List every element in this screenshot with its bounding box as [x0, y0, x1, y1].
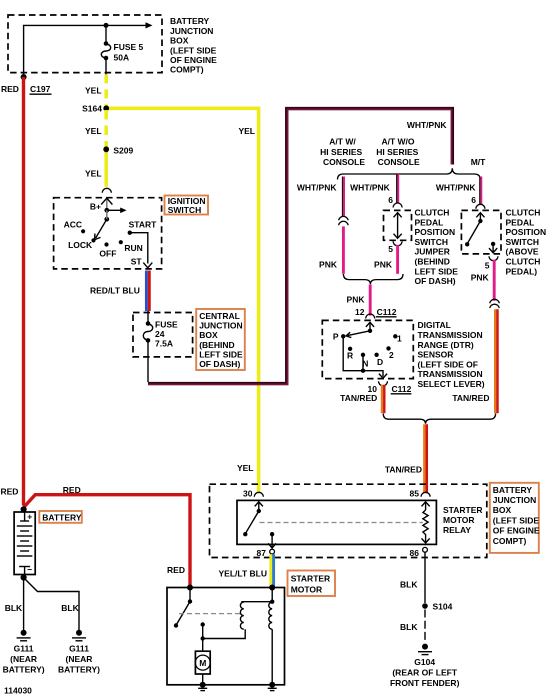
node: yel/lt blu entry	[269, 585, 275, 591]
solenoid actuation dashed link	[179, 613, 243, 615]
svg-text:D: D	[377, 357, 383, 367]
node: battery positive terminal	[21, 506, 27, 512]
svg-text:PNK: PNK	[319, 260, 338, 270]
svg-text:WHT/PNK: WHT/PNK	[297, 183, 338, 193]
jumper link with arrows	[394, 213, 402, 239]
brace: PNK variants merge	[343, 274, 403, 284]
svg-text:S164: S164	[82, 104, 102, 114]
svg-text:RELAY: RELAY	[443, 525, 471, 535]
console label A/T W/O HI SERIES CONSOLE	[376, 137, 420, 167]
arrow into B+	[101, 198, 112, 210]
wire WHT/PNK trunk (fuse 24 out, up and across top right)	[148, 109, 452, 385]
node: battery negative terminal	[21, 574, 27, 580]
wire YEL dashed (S164 to S209)	[104, 110, 108, 148]
node: red entry	[187, 585, 193, 591]
svg-text:CLUTCH: CLUTCH	[506, 208, 541, 218]
wire BLK (battery to G111 left)	[23, 578, 25, 631]
svg-text:−: −	[27, 565, 32, 575]
svg-text:SWITCH: SWITCH	[506, 237, 540, 247]
ignition position START contact	[128, 220, 158, 235]
wire PNK (left branch)	[342, 226, 345, 273]
fuse F5 (FUSE 5 50A)	[101, 25, 143, 74]
brace: TAN/RED variants merge	[383, 414, 495, 424]
connector C112 label (top)	[376, 307, 397, 317]
svg-text:OF ENGINE: OF ENGINE	[170, 55, 217, 65]
svg-text:START: START	[129, 220, 158, 230]
svg-text:FUSE 5: FUSE 5	[114, 42, 144, 52]
svg-text:JUNCTION: JUNCTION	[493, 495, 536, 505]
svg-text:CLUTCH: CLUTCH	[415, 208, 450, 218]
connector arc at DTR entry	[366, 314, 375, 319]
connector cup at DTR exit	[379, 381, 388, 386]
svg-text:RED: RED	[1, 84, 19, 94]
node: lever pivot	[104, 217, 109, 222]
svg-text:COMPT): COMPT)	[493, 536, 527, 546]
clutch pedal position switch (dashed box)	[461, 210, 501, 254]
svg-text:SWITCH: SWITCH	[168, 205, 202, 215]
battery label (orange box)	[39, 511, 82, 523]
wire WHT/PNK (A/T w/o console branch)	[397, 174, 399, 203]
inline connector (left branch)	[339, 216, 349, 225]
svg-text:5: 5	[485, 260, 490, 270]
wire RED/LT BLU (ignition to fuse 24)	[146, 271, 149, 312]
svg-text:WHT/PNK: WHT/PNK	[350, 183, 391, 193]
wire YEL dashed (fuse 5 to S164)	[104, 74, 108, 108]
svg-text:PEDAL): PEDAL)	[506, 266, 538, 276]
connector cup at jumper exit	[393, 241, 402, 246]
node: RED tap junction	[21, 74, 27, 80]
wire TAN/RED (M/T branch down)	[495, 309, 497, 413]
svg-text:STARTER: STARTER	[443, 505, 483, 515]
svg-text:JUNCTION: JUNCTION	[199, 321, 242, 331]
svg-text:12: 12	[355, 307, 365, 317]
svg-text:P: P	[333, 332, 339, 342]
svg-text:HI SERIES: HI SERIES	[320, 147, 362, 157]
svg-text:G111: G111	[69, 644, 89, 654]
connector arc at ignition B+ entry	[102, 188, 111, 193]
svg-text:SWITCH: SWITCH	[415, 237, 449, 247]
svg-text:(BEHIND: (BEHIND	[199, 340, 234, 350]
svg-text:LEFT SIDE: LEFT SIDE	[415, 266, 459, 276]
svg-text:MOTOR: MOTOR	[443, 515, 474, 525]
connector circle at pin 86	[423, 547, 428, 552]
wire PNK (merged, to DTR)	[369, 285, 372, 316]
svg-text:TRANSMISSION: TRANSMISSION	[418, 330, 483, 340]
svg-text:PEDAL: PEDAL	[506, 217, 535, 227]
wire YEL branch (S164 to starter relay pin 30)	[106, 108, 258, 493]
svg-text:50A: 50A	[114, 53, 130, 63]
svg-text:LOCK: LOCK	[68, 240, 93, 250]
svg-text:TRANSMISSION: TRANSMISSION	[418, 369, 483, 379]
svg-text:TAN/RED: TAN/RED	[340, 393, 377, 403]
svg-text:SENSOR: SENSOR	[418, 350, 454, 360]
svg-text:24: 24	[155, 329, 165, 339]
ground G111 left label text	[3, 644, 45, 675]
svg-text:OF DASH): OF DASH)	[199, 359, 240, 369]
node: bus junction	[104, 23, 109, 28]
ground G111 right label text	[58, 644, 100, 675]
svg-text:BLK: BLK	[5, 603, 23, 613]
svg-text:FRONT FENDER): FRONT FENDER)	[390, 678, 460, 688]
clutch switch internals	[465, 213, 497, 253]
DTR position R	[347, 347, 353, 361]
svg-text:YEL/LT BLU: YEL/LT BLU	[219, 569, 267, 579]
svg-text:85: 85	[410, 488, 420, 498]
wire PNK (M/T branch)	[493, 260, 496, 301]
connector C112 label (bottom)	[391, 384, 412, 394]
DTR position 1	[393, 333, 402, 343]
svg-text:DIGITAL: DIGITAL	[418, 320, 451, 330]
ground G111 (near battery, left)	[17, 630, 31, 641]
svg-text:BLK: BLK	[400, 622, 418, 632]
node B+ junction	[104, 208, 109, 213]
svg-text:SELECT LEVER): SELECT LEVER)	[418, 379, 485, 389]
svg-text:RUN: RUN	[124, 243, 142, 253]
svg-text:PNK: PNK	[347, 294, 366, 304]
ground G111 (near battery, right)	[72, 630, 86, 641]
svg-text:YEL: YEL	[85, 126, 102, 136]
svg-text:TAN/RED: TAN/RED	[452, 393, 489, 403]
battery	[14, 511, 35, 574]
svg-text:BLK: BLK	[400, 580, 418, 590]
DTR position P	[333, 332, 346, 342]
svg-text:YEL: YEL	[85, 86, 102, 96]
svg-text:RED: RED	[167, 565, 185, 575]
svg-text:BOX: BOX	[199, 330, 218, 340]
svg-text:CONSOLE: CONSOLE	[378, 157, 420, 167]
clutch switch label text	[506, 208, 547, 277]
starter motor relay box	[237, 500, 436, 544]
connector cup at clutch switch exit	[489, 256, 498, 261]
svg-text:RANGE (DTR): RANGE (DTR)	[418, 340, 474, 350]
fuse F24 (FUSE 24 7.5A)	[143, 311, 178, 349]
inline connector (M/T branch)	[490, 299, 500, 308]
brace: wiring variants (top)	[338, 168, 481, 179]
splice S209	[103, 146, 133, 156]
svg-text:5: 5	[388, 244, 393, 254]
DTR position D	[374, 353, 383, 367]
starter solenoid switch	[174, 588, 192, 628]
svg-text:PNK: PNK	[374, 260, 393, 270]
relay actuation dashed link	[260, 522, 424, 524]
svg-text:BOX: BOX	[493, 505, 512, 515]
svg-text:86: 86	[410, 548, 420, 558]
starter switch contact to motor	[201, 622, 246, 652]
connector circle at pin 87	[270, 549, 275, 554]
svg-text:PNK: PNK	[471, 273, 490, 283]
svg-text:114030: 114030	[4, 686, 32, 696]
connector arc at jumper entry	[393, 203, 402, 208]
svg-text:(LEFT SIDE: (LEFT SIDE	[493, 515, 540, 525]
ignition switch box (dashed)	[54, 198, 162, 269]
svg-text:ACC: ACC	[64, 220, 82, 230]
svg-text:(REAR OF LEFT: (REAR OF LEFT	[392, 668, 457, 678]
svg-text:CLUTCH: CLUTCH	[506, 257, 541, 267]
svg-text:G104: G104	[414, 657, 435, 667]
svg-text:(ABOVE: (ABOVE	[506, 247, 539, 257]
svg-text:+: +	[27, 511, 32, 521]
connector arc at clutch switch entry	[476, 204, 485, 209]
svg-text:R: R	[347, 351, 353, 361]
svg-text:MOTOR: MOTOR	[291, 585, 322, 595]
ignition position ACC	[64, 220, 86, 234]
svg-text:POSITION: POSITION	[415, 227, 456, 237]
svg-text:BOX: BOX	[170, 36, 189, 46]
wire TAN/RED (merged, to relay pin 85)	[424, 424, 426, 493]
connector arc at pin 85	[421, 492, 430, 496]
case ground tick (motor)	[198, 688, 207, 690]
ignition position RUN	[119, 240, 143, 253]
svg-text:YEL: YEL	[237, 463, 254, 473]
svg-text:OFF: OFF	[99, 249, 116, 259]
svg-text:(LEFT SIDE OF: (LEFT SIDE OF	[418, 359, 478, 369]
svg-text:(NEAR: (NEAR	[10, 654, 37, 664]
case ground tick (winding)	[268, 688, 277, 690]
wire BLK dashed (S104 to G104)	[424, 610, 426, 644]
ignition switch label (orange box)	[165, 196, 209, 216]
BJB1 label text	[170, 16, 217, 74]
svg-text:WHT/PNK: WHT/PNK	[436, 183, 477, 193]
node: motor ground on case	[200, 682, 206, 688]
battery junction box BJB1 (top left, dashed)	[8, 15, 162, 73]
svg-text:M/T: M/T	[471, 157, 486, 167]
ignition position LOCK	[68, 238, 96, 250]
node: winding ground on case	[269, 682, 275, 688]
svg-text:M: M	[199, 658, 206, 668]
CJB label (orange box)	[196, 309, 245, 370]
svg-text:C112: C112	[377, 307, 397, 317]
ignition position OFF	[99, 242, 116, 258]
battery junction box BJB2 (relay, dashed)	[210, 484, 487, 557]
svg-text:6: 6	[388, 195, 393, 205]
starter motor label (orange box)	[288, 571, 336, 597]
DTR output path with arrow	[343, 336, 387, 378]
svg-text:S209: S209	[113, 146, 133, 156]
svg-text:OF DASH): OF DASH)	[415, 276, 456, 286]
wire YEL/LT BLU (pin 87 to starter motor)	[271, 554, 274, 587]
wire YEL (S209 to ignition switch)	[104, 148, 108, 187]
svg-text:(NEAR: (NEAR	[66, 654, 93, 664]
DTR sensor box (dashed)	[322, 320, 413, 378]
svg-text:YEL: YEL	[85, 169, 102, 179]
BJB2 label (orange box)	[490, 483, 540, 553]
svg-text:JUNCTION: JUNCTION	[170, 26, 213, 36]
wire RED (left battery feed, vertical)	[22, 77, 25, 506]
clutch pedal position switch jumper (dashed box)	[384, 210, 412, 240]
DTR position 2	[386, 346, 394, 360]
console label A/T W/ HI SERIES CONSOLE	[320, 137, 365, 167]
ignition switch lever with arrowhead	[95, 219, 107, 239]
svg-text:OF ENGINE: OF ENGINE	[493, 526, 540, 536]
svg-text:A/T W/: A/T W/	[329, 137, 356, 147]
connector C197 label	[30, 84, 52, 94]
wire WHT/PNK (M/T branch)	[480, 177, 482, 205]
starter motor box	[167, 588, 285, 685]
svg-text:BATTERY: BATTERY	[42, 512, 82, 522]
DTR label text	[418, 320, 485, 389]
connector arc at pin 30	[254, 492, 263, 496]
DTR internals: entry arrow and selector lever	[346, 322, 374, 337]
svg-text:C197: C197	[30, 84, 51, 94]
wire: BJB1 internal bus with arrow	[24, 22, 153, 77]
svg-text:JUMPER: JUMPER	[415, 247, 450, 257]
svg-text:A/T W/O: A/T W/O	[381, 137, 414, 147]
svg-text:CENTRAL: CENTRAL	[199, 311, 240, 321]
svg-text:2: 2	[389, 350, 394, 360]
relay switch (pin 30 to 87)	[243, 502, 276, 548]
jumper label text	[415, 208, 459, 287]
svg-text:BATTERY): BATTERY)	[58, 665, 100, 675]
wire TAN/RED (DTR out)	[382, 385, 384, 413]
splice S104	[422, 602, 452, 612]
svg-text:G111: G111	[14, 644, 34, 654]
svg-text:TAN/RED: TAN/RED	[385, 465, 422, 475]
ground G104 label text	[390, 657, 460, 688]
svg-text:30: 30	[243, 488, 253, 498]
wire: START output with arrow	[130, 233, 153, 268]
svg-text:STARTER: STARTER	[291, 574, 331, 584]
svg-text:FUSE: FUSE	[155, 320, 178, 330]
ground G104	[418, 644, 432, 655]
label STARTER MOTOR RELAY	[443, 505, 483, 535]
svg-text:(LEFT SIDE: (LEFT SIDE	[170, 45, 217, 55]
wire RED (battery to starter motor)	[24, 495, 190, 587]
svg-text:7.5A: 7.5A	[155, 339, 173, 349]
splice S164	[82, 104, 109, 114]
svg-text:CONSOLE: CONSOLE	[323, 157, 365, 167]
svg-text:WHT/PNK: WHT/PNK	[407, 120, 448, 130]
svg-text:(BEHIND: (BEHIND	[415, 257, 450, 267]
svg-text:YEL: YEL	[238, 126, 255, 136]
svg-text:HI SERIES: HI SERIES	[376, 147, 418, 157]
svg-text:COMPT): COMPT)	[170, 65, 204, 75]
svg-text:87: 87	[257, 548, 267, 558]
svg-text:BATTERY: BATTERY	[170, 16, 210, 26]
svg-text:RED/LT BLU: RED/LT BLU	[90, 286, 140, 296]
svg-text:ST: ST	[131, 257, 143, 267]
solenoid windings	[240, 588, 274, 685]
DTR position N	[361, 353, 369, 369]
svg-text:BLK: BLK	[61, 603, 79, 613]
svg-text:BATTERY: BATTERY	[493, 485, 533, 495]
starter motor M	[195, 651, 210, 685]
svg-text:PEDAL: PEDAL	[415, 217, 444, 227]
svg-text:B+: B+	[90, 202, 101, 212]
svg-text:BATTERY): BATTERY)	[3, 665, 45, 675]
svg-text:C112: C112	[392, 384, 412, 394]
svg-text:POSITION: POSITION	[506, 227, 547, 237]
wire BLK (pin 86 to S104)	[424, 552, 426, 603]
wire PNK (jumper out)	[396, 245, 399, 274]
wire BLK (battery to G111 right)	[25, 579, 80, 631]
relay coil	[422, 502, 430, 543]
svg-text:S104: S104	[433, 602, 453, 612]
svg-text:LEFT SIDE: LEFT SIDE	[199, 349, 243, 359]
svg-text:RED: RED	[1, 487, 19, 497]
wire WHT/PNK (A/T w/ console branch)	[343, 177, 345, 218]
svg-text:1: 1	[397, 333, 402, 343]
arrow right from B+	[107, 208, 127, 214]
svg-text:6: 6	[471, 195, 476, 205]
central junction box (dashed)	[133, 313, 193, 357]
